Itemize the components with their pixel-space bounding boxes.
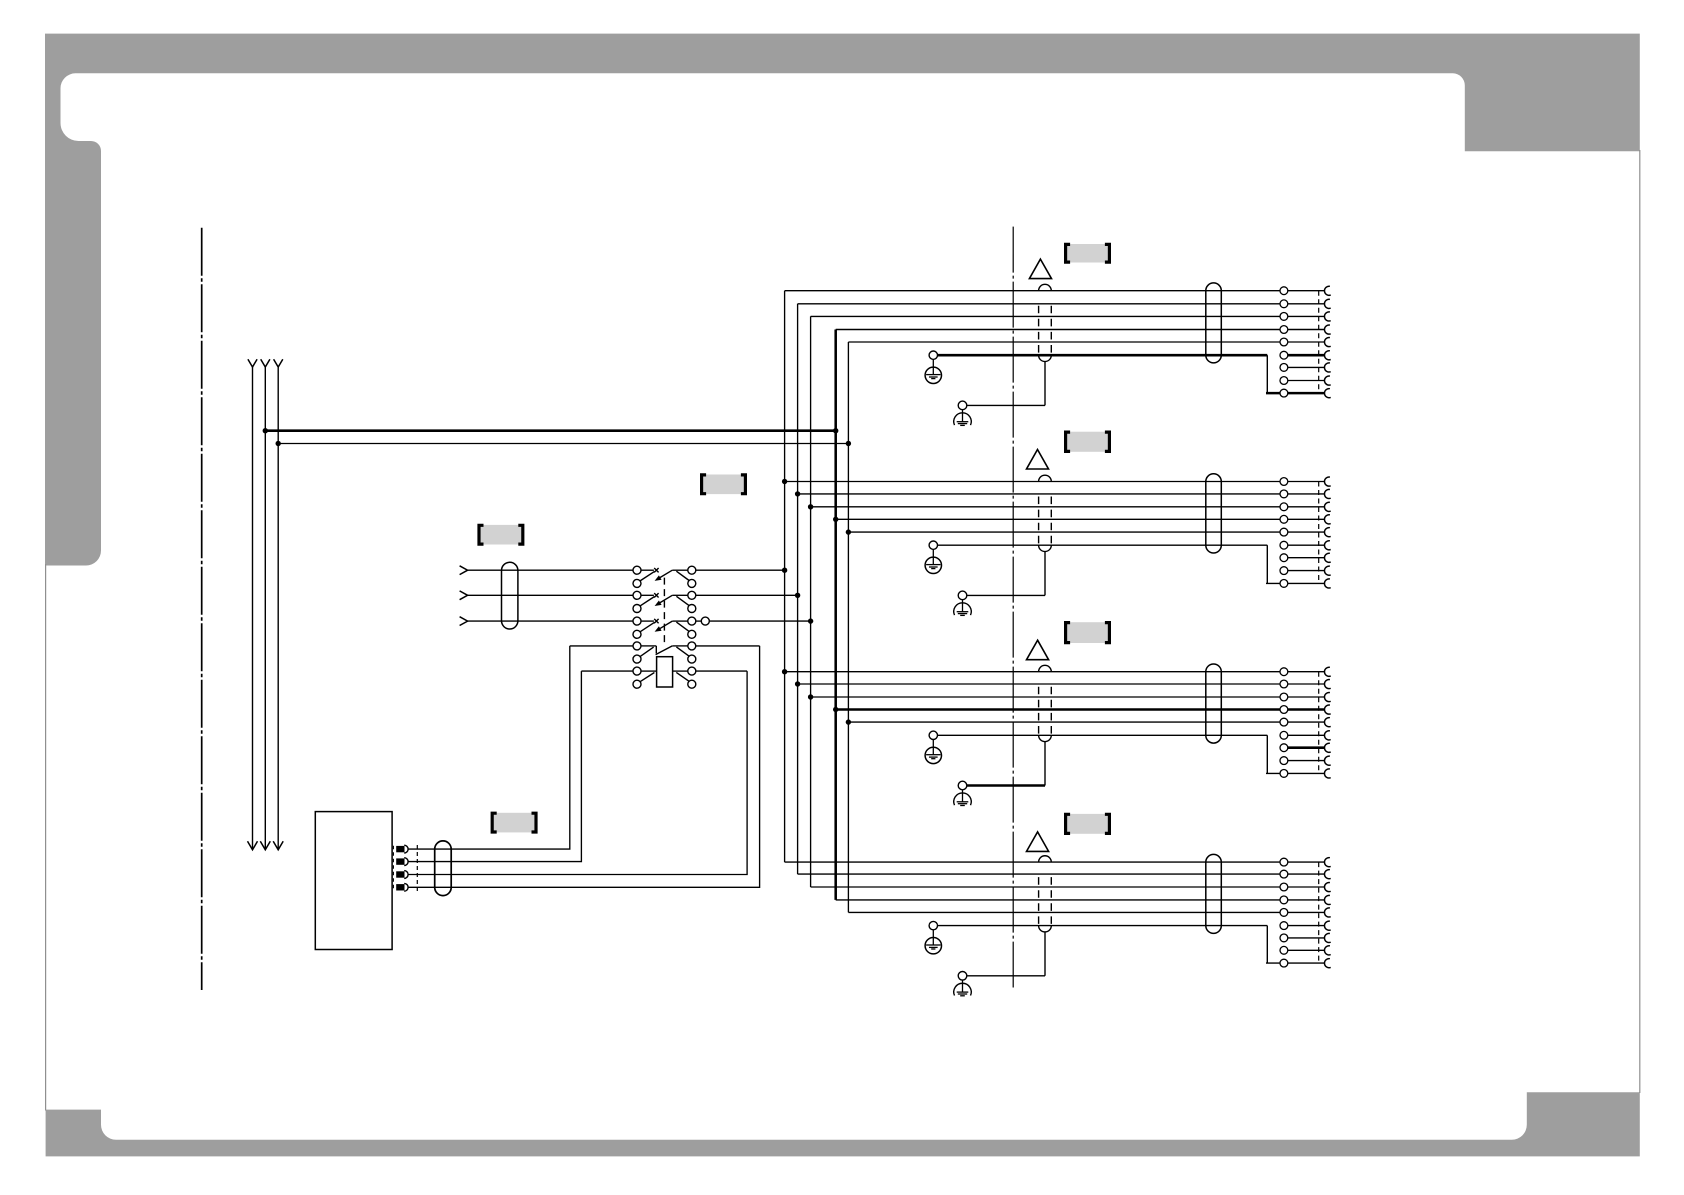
block 3 pin 1	[1280, 668, 1288, 676]
gray frame: bottom band with left and right blocks	[46, 1092, 1640, 1156]
block 2 pin 7 stub	[1288, 557, 1325, 559]
supply line L3 top Y arrow	[274, 359, 283, 367]
block 3 wire 6 to pin 9	[1266, 772, 1325, 774]
node block 2 wire 4 tap	[833, 517, 838, 522]
block 2 pin 8 hook	[1324, 566, 1330, 575]
block 4 connector dashed line	[1318, 862, 1320, 963]
block 4 pin 2 hook	[1324, 870, 1330, 879]
block 1 pin 1 hook	[1324, 286, 1330, 295]
pole 1 moving arm with arrowhead	[660, 570, 672, 577]
block 3 pin 3	[1280, 693, 1288, 701]
pole 1 fixed contact wire and x	[641, 569, 654, 571]
block 2 warning triangle	[1027, 450, 1049, 470]
block 4 wire 6 vertical drop	[1266, 926, 1268, 964]
gray frame: top band with left and right tabs	[45, 34, 1640, 566]
block 1 pin 7 hook	[1324, 363, 1330, 372]
block 3 pin 6 stub	[1288, 734, 1325, 736]
block 4 ferrite core	[1206, 854, 1222, 933]
distribution vertical wire D (bold)	[834, 330, 837, 900]
supply line L1 vertical wire	[252, 367, 254, 849]
node pole3 to vertical C	[808, 618, 813, 623]
block 4 pin 7 stub	[1288, 937, 1325, 939]
block 1 wire 6 to pin 9	[1266, 392, 1325, 395]
block 2 pin 9	[1280, 580, 1288, 588]
pole 1 arm stub	[672, 569, 688, 571]
label box block 1	[1067, 244, 1108, 263]
supply line L1 top Y arrow	[248, 359, 257, 367]
block 1 pin 5 hook	[1324, 338, 1330, 347]
block 4 pin 2	[1280, 870, 1288, 878]
pole 5 right wire from coil	[673, 670, 688, 672]
block 2 protective earth symbol	[932, 549, 934, 564]
pole 4 moving arm	[656, 646, 673, 655]
block 3 wire 4	[836, 708, 1325, 711]
block 4 pin 4 hook	[1324, 895, 1330, 904]
block 2 pin 2 hook	[1324, 489, 1330, 498]
node: bus to vertical	[846, 441, 851, 446]
pole 5 left feed wire	[581, 670, 633, 672]
block 2 shield drain terminal	[958, 591, 967, 600]
switch pole 2 contacts	[633, 591, 641, 599]
distribution vertical wire A	[784, 291, 786, 862]
supply line L2 top Y arrow	[261, 359, 270, 367]
block 1 pin 9	[1280, 389, 1288, 397]
block 4 pin 6	[1280, 922, 1288, 930]
block 4 wire 5	[848, 911, 1324, 913]
block 1 wire 6 (from terminal)	[938, 354, 1268, 357]
node pole2 to vertical B	[795, 593, 800, 598]
block 2 wire 2	[798, 493, 1325, 495]
block 2 pin 5	[1280, 528, 1288, 536]
block 2 ferrite core	[1206, 474, 1222, 553]
chain line (left border of diagram)	[201, 228, 203, 990]
block 3 shielded cable core (dashed)	[1039, 665, 1052, 671]
pole 5 right output wire	[696, 670, 747, 672]
box terminal 1	[396, 846, 404, 852]
node block 2 wire 3 tap	[808, 504, 813, 509]
block 4 wire 6 (from terminal)	[938, 925, 1268, 927]
supply line L3 bottom arrowhead	[273, 841, 283, 850]
pole 3 right blade	[676, 622, 689, 631]
block 1 wire 3	[811, 315, 1325, 317]
block 1 pin 7	[1280, 364, 1288, 372]
block 4 wire 2	[798, 873, 1325, 875]
relay coil box	[657, 657, 673, 687]
pole 2 output wire	[696, 594, 798, 596]
block 1 pin 4	[1280, 326, 1288, 334]
distribution vertical wire E	[847, 342, 849, 912]
block 3 wire 1	[785, 671, 1325, 673]
bus wire from L3	[278, 443, 848, 445]
supply line L1 bottom arrowhead	[248, 841, 258, 850]
pole 4 arm stub	[672, 645, 688, 647]
block 4 pin 1	[1280, 858, 1288, 866]
node block 3 wire 2 tap	[795, 681, 800, 686]
chain line (vertical, through ferrite cores)	[1012, 227, 1014, 988]
switch: input chevrons and wires	[460, 566, 468, 575]
pole 2 moving arm with arrowhead	[660, 595, 672, 602]
block 2 pin 2	[1280, 490, 1288, 498]
pole 1 output wire	[696, 569, 785, 571]
pole 5 right blade	[676, 672, 689, 681]
relay pole 4 contacts	[633, 642, 641, 650]
switch pole 1 contacts	[633, 566, 641, 574]
block 4 shield drain wire	[967, 975, 1045, 977]
block 1 pin 5	[1280, 338, 1288, 346]
block 4 pin 3 hook	[1324, 883, 1330, 892]
block 1 pin 9 hook	[1324, 389, 1330, 398]
block 2 pin 8	[1280, 567, 1288, 575]
block 4 pin 1 hook	[1324, 858, 1330, 867]
block 1 pin 4 hook	[1324, 325, 1330, 334]
block 4 pin 8 stub	[1288, 949, 1325, 951]
block 3 pin 7 stub	[1288, 746, 1325, 749]
label box block 2	[1067, 432, 1108, 452]
block 3 wire 6 vertical drop	[1266, 735, 1268, 773]
block 4 pin 4	[1280, 896, 1288, 904]
block 2 pin 3	[1280, 503, 1288, 511]
block 1 protective earth symbol	[932, 359, 934, 374]
block 1 pin 8 hook	[1324, 376, 1330, 385]
block 2 shield drain wire	[967, 594, 1045, 596]
pole 2 left blade	[640, 597, 655, 607]
pole 5 left blade	[640, 673, 655, 682]
block 1 wire 2	[798, 303, 1325, 305]
block 4 wire 3	[811, 886, 1325, 888]
pole 3 arm stub	[672, 620, 688, 622]
block 1 pin 6 hook	[1324, 351, 1330, 360]
block 2 pin 5 hook	[1324, 528, 1330, 537]
block 4 pin 6 hook	[1324, 921, 1330, 930]
block 4 wire 6 to pin 9	[1266, 962, 1325, 964]
block 3 pin 7 hook	[1324, 743, 1330, 752]
distribution vertical wire B	[797, 304, 799, 874]
pole 2 right blade	[676, 596, 689, 605]
pole 3 output wire	[696, 620, 701, 622]
dashed line right of terminals	[416, 845, 418, 891]
block 3 shield drain terminal	[958, 781, 967, 790]
block 3 pin 6 hook	[1324, 731, 1330, 740]
node block 3 wire 1 tap	[782, 669, 787, 674]
block 3 wire 6 (from terminal)	[938, 734, 1268, 736]
pole 3 fixed contact wire and x	[641, 620, 654, 622]
block 1 pin 1	[1280, 287, 1288, 295]
block 3 wire 5	[848, 721, 1324, 723]
block 3 pin 4 hook	[1324, 705, 1330, 714]
block 3 wire 3	[811, 696, 1325, 698]
block 1 ferrite core	[1206, 283, 1222, 363]
block 3 pin 7	[1280, 744, 1288, 752]
node block 2 wire 1 tap	[782, 479, 787, 484]
block 3 pin 5	[1280, 718, 1288, 726]
ferrite core over switch input wires	[502, 562, 518, 629]
pole 3 extra contact circle	[701, 617, 709, 625]
block 3 pin 2 hook	[1324, 680, 1330, 689]
block 4 warning triangle	[1027, 832, 1049, 852]
block 1 shielded cable core (dashed)	[1039, 284, 1052, 290]
block 2 pin 6 hook	[1324, 541, 1330, 550]
pole 4 left feed wire	[570, 645, 633, 647]
control wire loop 4	[408, 646, 759, 887]
label box control box	[494, 813, 535, 833]
control wire loop 3	[408, 671, 747, 874]
ferrite core over control wires	[435, 841, 452, 896]
block 1 pin 6	[1280, 351, 1288, 359]
page border right segment	[1639, 150, 1641, 1093]
block 2 shield drain vertical	[1044, 551, 1046, 595]
block 2 pin 4 hook	[1324, 515, 1330, 524]
block 4 pin 9 hook	[1324, 959, 1330, 968]
block 1 connector dashed line	[1318, 291, 1320, 393]
pole 5 left wire into coil	[641, 670, 657, 672]
block 2 wire 6 vertical drop	[1266, 545, 1268, 583]
block 2 pin 7	[1280, 554, 1288, 562]
block 2 wire 1	[785, 481, 1325, 483]
block 3 shield drain wire	[967, 784, 1045, 787]
block 3 pin 4	[1280, 706, 1288, 714]
block 1 pin 2	[1280, 300, 1288, 308]
block 4 chassis ground symbol	[962, 980, 964, 992]
block 3 connector dashed line	[1318, 672, 1320, 774]
block 1 warning triangle	[1029, 259, 1051, 279]
block 3 earth terminal	[929, 731, 937, 739]
block 1 pin 8	[1280, 377, 1288, 385]
pole 4 left blade	[640, 647, 654, 657]
block 4 wire 4	[836, 899, 1325, 901]
block 3 pin 8 stub	[1288, 760, 1325, 762]
block 4 pin 8	[1280, 946, 1288, 954]
block 3 wire 2	[798, 683, 1325, 685]
page border left segment	[45, 564, 47, 1111]
block 1 shield drain vertical	[1044, 361, 1046, 405]
pole 3 moving arm with arrowhead	[660, 621, 672, 628]
box terminal 4	[396, 884, 404, 890]
bold bus wire from L2	[265, 429, 835, 432]
pole 4 fixed wire and break stub	[641, 645, 656, 647]
block 2 connector dashed line	[1318, 482, 1320, 584]
pole 2 arm stub	[672, 594, 688, 596]
block 3 pin 2	[1280, 680, 1288, 688]
block 3 pin 6	[1280, 731, 1288, 739]
block 1 chassis ground symbol	[962, 410, 964, 422]
block 2 earth terminal	[929, 541, 937, 549]
mechanical linkage dashed line	[663, 578, 665, 646]
block 3 pin 8 hook	[1324, 756, 1330, 765]
node block 3 wire 3 tap	[808, 694, 813, 699]
block 1 pin 2 hook	[1324, 299, 1330, 308]
node block 2 wire 5 tap	[846, 529, 851, 534]
pole 4 right output wire	[696, 645, 760, 647]
block 1 shield drain wire	[967, 404, 1045, 406]
node block 3 wire 4 tap	[833, 707, 838, 712]
block 2 wire 6 to pin 9	[1266, 582, 1325, 584]
box terminal 2	[396, 858, 404, 864]
block 2 wire 5	[848, 531, 1324, 533]
block 3 chassis ground symbol	[962, 790, 964, 802]
label box block 3	[1067, 622, 1108, 643]
block 4 pin 5	[1280, 909, 1288, 917]
node: bold bus to bold vertical	[833, 428, 838, 433]
control wire loop 2	[408, 671, 581, 862]
node: L2 to bold bus	[263, 428, 268, 433]
block 3 protective earth symbol	[932, 740, 934, 755]
block 2 pin 1 hook	[1324, 477, 1330, 486]
block 4 pin 3	[1280, 883, 1288, 891]
block 1 wire 4	[836, 329, 1325, 331]
block 1 wire 1	[785, 290, 1325, 292]
block 1 earth terminal	[929, 351, 937, 359]
block 3 pin 9 hook	[1324, 769, 1330, 778]
block 4 pin 8 hook	[1324, 946, 1330, 955]
pole 1 right blade	[676, 571, 689, 580]
supply line L2 bottom arrowhead	[260, 841, 270, 850]
node block 3 wire 5 tap	[846, 719, 851, 724]
supply line L3 vertical wire	[277, 367, 279, 849]
block 3 warning triangle	[1027, 640, 1049, 660]
block 3 pin 3 hook	[1324, 693, 1330, 702]
node pole1 to vertical A	[782, 568, 787, 573]
block 2 wire 3	[811, 506, 1325, 508]
block 4 wire 1	[785, 861, 1325, 863]
block 3 pin 9	[1280, 770, 1288, 778]
block 2 pin 6 stub	[1288, 544, 1325, 546]
pole 2 fixed contact wire and x	[641, 594, 654, 596]
block 1 wire 5	[848, 341, 1324, 343]
control wire loop 1	[408, 646, 570, 849]
label box block 4	[1067, 814, 1108, 834]
block 4 shield drain vertical	[1044, 931, 1046, 975]
block 3 ferrite core	[1206, 664, 1222, 743]
block 1 pin 6 stub	[1288, 354, 1325, 357]
block 2 pin 1	[1280, 478, 1288, 486]
pole 1 left blade	[640, 571, 655, 581]
block 2 pin 8 stub	[1288, 570, 1325, 572]
block 4 pin 9	[1280, 959, 1288, 967]
pole 3 left blade	[640, 622, 655, 632]
label box switch	[481, 525, 522, 545]
node: L3 to bus	[276, 441, 281, 446]
block 2 chassis ground symbol	[962, 600, 964, 612]
node block 2 wire 2 tap	[795, 491, 800, 496]
block 4 shield drain terminal	[958, 972, 967, 981]
block 3 pin 8	[1280, 757, 1288, 765]
block 3 shield drain vertical	[1044, 741, 1046, 785]
supply line L2 vertical wire	[264, 367, 266, 849]
block 3 pin 1 hook	[1324, 667, 1330, 676]
block 1 pin 3 hook	[1324, 312, 1330, 321]
box terminal 3	[396, 871, 404, 877]
distribution vertical wire C	[810, 316, 812, 887]
block 2 pin 4	[1280, 515, 1288, 523]
control unit box	[315, 812, 392, 950]
block 2 pin 3 hook	[1324, 502, 1330, 511]
block 2 shielded cable core (dashed)	[1039, 475, 1052, 481]
block 3 pin 5 hook	[1324, 718, 1330, 727]
block 4 earth terminal	[929, 921, 937, 929]
block 4 pin 7	[1280, 934, 1288, 942]
switch pole 3 contacts	[633, 617, 641, 625]
block 4 shielded cable core (dashed)	[1039, 856, 1052, 862]
block 4 pin 5 hook	[1324, 908, 1330, 917]
block 1 shield drain terminal	[958, 401, 967, 410]
block 2 pin 6	[1280, 541, 1288, 549]
block 1 pin 8 stub	[1288, 380, 1325, 382]
dashed line over terminals	[392, 846, 394, 891]
label box top middle	[703, 475, 744, 495]
block 1 wire 6 vertical drop	[1266, 355, 1268, 393]
relay pole 5 contacts	[633, 667, 641, 675]
block 4 protective earth symbol	[932, 930, 934, 945]
block 2 wire 4	[836, 518, 1325, 520]
block 4 pin 7 hook	[1324, 933, 1330, 942]
block 1 pin 7 stub	[1288, 366, 1325, 368]
pole 4 right blade	[676, 647, 689, 656]
block 4 pin 6 stub	[1288, 925, 1325, 927]
block 1 pin 3	[1280, 313, 1288, 321]
block 2 wire 6 (from terminal)	[938, 544, 1268, 546]
block 2 pin 7 hook	[1324, 553, 1330, 562]
block 2 pin 9 hook	[1324, 579, 1330, 588]
